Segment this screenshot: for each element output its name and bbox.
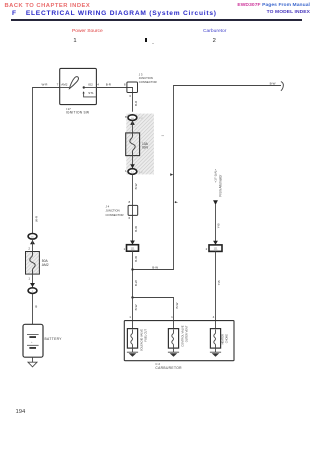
connector (left, above fusible link) <box>28 234 37 240</box>
svg-text:B-R: B-R <box>134 100 138 106</box>
junction dot <box>131 268 133 270</box>
svg-text:B-W: B-W <box>134 226 138 232</box>
ground (choke heater) <box>210 348 221 357</box>
wire W-R: ignition switch AM2 to left column down to fusible link <box>33 88 60 234</box>
column title: Carburetor <box>203 29 226 34</box>
connector (left, below fusible link) <box>28 288 37 294</box>
svg-text:BATTERY: BATTERY <box>45 337 63 341</box>
page number <box>16 409 26 415</box>
choke heater coil <box>210 329 220 349</box>
wire J4 to connector <box>132 227 134 245</box>
wire B to battery <box>32 294 34 324</box>
svg-text:CONNECTOR: CONNECTOR <box>139 80 157 84</box>
svg-text:ST1: ST1 <box>88 91 94 95</box>
arrow up into connector <box>130 121 135 125</box>
arrow into inline connector (right) <box>213 241 218 245</box>
svg-text:B-W: B-W <box>134 280 138 286</box>
header title: F ELECTRICAL WIRING DIAGRAM (System Circuits) <box>12 10 217 17</box>
wire <box>32 240 34 252</box>
header rule <box>11 19 302 21</box>
fuse 10A IGN <box>126 133 140 156</box>
svg-text:Y-B: Y-B <box>217 281 221 286</box>
connector (fuse bottom) <box>128 169 137 175</box>
connector (fuse top) <box>128 115 137 121</box>
svg-text:IGN: IGN <box>142 146 148 150</box>
header right: EWD307F Pages From Manual <box>237 3 310 8</box>
wire <box>132 156 134 169</box>
svg-text:1J1: 1J1 <box>214 248 219 251</box>
arrow start of alternator wire <box>213 200 218 205</box>
system number 1 <box>73 38 76 44</box>
svg-text:1: 1 <box>28 276 30 280</box>
wire from alternator <box>215 205 217 245</box>
battery <box>23 324 43 357</box>
svg-text:B-W: B-W <box>270 82 276 86</box>
svg-text:2-2: 2-2 <box>139 170 143 174</box>
outer vent control valve coil <box>168 329 178 349</box>
ignition switch I17 <box>60 68 97 104</box>
arrow into inline connector <box>130 241 135 245</box>
svg-text:2: 2 <box>28 247 30 251</box>
svg-text:6: 6 <box>129 216 131 220</box>
fusible link AM2 (hatched box) <box>26 252 40 275</box>
svg-text:HEATER: HEATER <box>221 334 225 344</box>
svg-text:4: 4 <box>213 315 215 319</box>
svg-text:B-W: B-W <box>175 303 179 309</box>
svg-text:OUTER VENT: OUTER VENT <box>184 325 188 342</box>
carburetor box C2 <box>124 321 234 361</box>
trunk wire to carburetor <box>132 298 134 329</box>
svg-text:CONNECTOR: CONNECTOR <box>106 213 124 217</box>
arrow down into connector <box>130 164 135 168</box>
svg-text:Y-B: Y-B <box>217 224 221 229</box>
svg-text:CHOKE: CHOKE <box>225 334 229 343</box>
svg-text:AM2: AM2 <box>61 83 68 87</box>
wire <box>32 274 34 287</box>
svg-text:B-W: B-W <box>152 265 158 269</box>
junction dot <box>131 296 133 298</box>
svg-text:<17-1(A)>: <17-1(A)> <box>214 169 218 183</box>
wire battery to ground <box>32 357 34 362</box>
svg-text:IGNITION SW: IGNITION SW <box>66 111 90 115</box>
wire <box>132 121 134 133</box>
tick mark on feed wire (upper) <box>170 173 173 176</box>
inline connector box (right) <box>209 245 222 252</box>
svg-text:W-R: W-R <box>42 82 49 86</box>
system number 2 <box>213 38 216 44</box>
fuse box hatch area <box>126 114 154 175</box>
svg-text:1: 1 <box>129 315 131 319</box>
svg-text:1H: 1H <box>131 118 134 120</box>
svg-text:SOLENOID VALVE: SOLENOID VALVE <box>140 329 144 351</box>
wire B-R ignition to J3 <box>96 87 127 89</box>
svg-text:CARBURETOR: CARBURETOR <box>155 366 182 370</box>
svg-text:B-W: B-W <box>134 256 138 262</box>
svg-text:B: B <box>35 304 37 308</box>
svg-text:4: 4 <box>97 83 99 87</box>
ground (fuel cut solenoid) <box>127 348 138 357</box>
svg-text:AM2: AM2 <box>42 263 49 267</box>
arrow up into connector <box>30 240 35 244</box>
gray speck right of fuse <box>161 135 164 136</box>
svg-text:8: 8 <box>124 82 126 86</box>
tick mark on feed wire (lower) <box>175 201 177 203</box>
branch to outer vent valve <box>133 298 174 329</box>
faint dot <box>152 43 154 44</box>
svg-text:1J: 1J <box>131 172 133 174</box>
svg-text:IG2: IG2 <box>88 83 93 87</box>
svg-text:From Alternator: From Alternator <box>218 174 222 197</box>
fuel cut solenoid valve coil <box>127 329 137 349</box>
feed wire B-W from top right <box>133 86 282 270</box>
header link: BACK TO CHAPTER INDEX <box>5 3 91 9</box>
arrow down into connector <box>30 283 35 287</box>
svg-text:B-W: B-W <box>134 304 138 310</box>
junction connector J3 <box>127 82 138 112</box>
svg-text:7: 7 <box>57 83 59 87</box>
svg-text:6: 6 <box>129 94 131 98</box>
svg-text:W-R: W-R <box>34 215 38 222</box>
svg-text:B-R: B-R <box>106 82 112 86</box>
svg-text:2-2: 2-2 <box>139 116 143 120</box>
wire to choke heater <box>215 251 217 328</box>
header link: TO MODEL INDEX <box>267 10 310 15</box>
ground (battery) <box>28 362 37 367</box>
svg-text:B-W: B-W <box>134 183 138 189</box>
svg-text:1: 1 <box>124 247 126 251</box>
small mark between titles <box>145 38 147 42</box>
svg-text:2: 2 <box>206 247 208 251</box>
wire end hook <box>281 82 283 91</box>
ground (outer vent valve) <box>168 348 179 357</box>
wire fuse to J4 <box>132 175 134 227</box>
inline connector box (center) <box>127 245 139 252</box>
svg-text:FUEL CUT: FUEL CUT <box>144 329 148 342</box>
wire below connector <box>132 251 134 297</box>
svg-text:1: 1 <box>171 315 173 319</box>
junction connector J4 <box>128 205 138 215</box>
svg-text:CONTROL VALVE: CONTROL VALVE <box>180 325 184 347</box>
column title: Power Source <box>72 29 103 34</box>
svg-text:1J1: 1J1 <box>131 247 136 250</box>
svg-text:8: 8 <box>129 200 131 204</box>
